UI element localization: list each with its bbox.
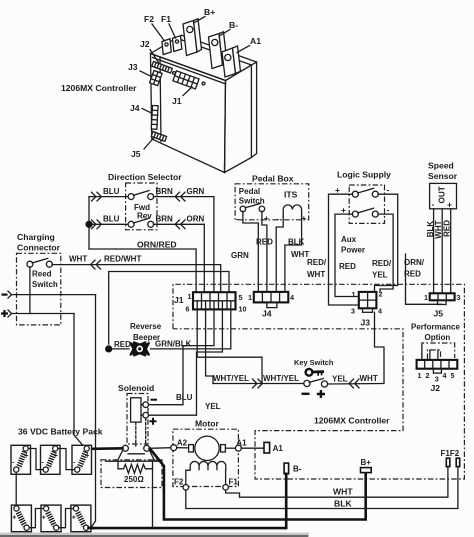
svg-text:1206MX Controller: 1206MX Controller [61, 83, 137, 93]
wire aux power outer right (RED/YEL) [375, 194, 398, 292]
heavy wire battery B3+ to solenoid contact [86, 447, 123, 450]
svg-text:Logic Supply: Logic Supply [337, 170, 391, 180]
terminal tab B+ on controller top [183, 19, 202, 56]
wire charging minus down to battery B6 [91, 295, 96, 528]
svg-text:A1: A1 [250, 36, 261, 46]
wire BLU from J1 pin8 to solenoid coil minus [148, 301, 214, 405]
wire YEL from J1 pin9 to solenoid coil plus [148, 301, 222, 415]
svg-text:-: - [387, 205, 390, 215]
label J5 with leader [131, 138, 154, 160]
inline connector arrows rev-right [175, 220, 185, 229]
svg-text:B-: B- [229, 20, 238, 30]
wire BRN rev row [153, 223, 204, 225]
svg-text:WHT/YEL: WHT/YEL [263, 374, 299, 383]
reed switch [27, 258, 58, 289]
svg-text:Switch: Switch [32, 280, 58, 289]
motor field coil [186, 461, 226, 484]
wire B2+ to B3- [58, 449, 75, 470]
connector J3 [351, 290, 383, 328]
svg-text:Charging: Charging [17, 232, 55, 242]
terminal tab B+ [361, 468, 372, 473]
svg-text:1: 1 [352, 290, 356, 299]
battery B3 [72, 445, 92, 474]
svg-text:4: 4 [443, 371, 447, 380]
logic supply switch dashed box [349, 185, 384, 223]
wire B1- down to B4+ [15, 472, 17, 505]
svg-text:-: - [236, 215, 239, 224]
controller 3D drawing: 1206MX Controller unit [151, 35, 257, 172]
speed sensor box [430, 183, 457, 209]
label Pedal Switch [239, 187, 265, 206]
label J2 with leader [140, 39, 159, 63]
wire RED to beeper [109, 348, 129, 350]
svg-text:B-: B- [293, 465, 302, 474]
charging connector labels [17, 232, 61, 253]
terminal tab B- [284, 463, 289, 474]
label Aux Power [341, 235, 365, 255]
svg-text:RED/: RED/ [372, 259, 392, 268]
svg-text:1: 1 [424, 293, 428, 302]
label J1 with leader [172, 87, 192, 106]
svg-text:BRN: BRN [156, 215, 174, 224]
wire RED beeper feed from J1 pin5 [109, 272, 229, 345]
scan edge dark line [0, 535, 308, 537]
svg-text:Reed: Reed [32, 270, 52, 279]
wire ORN/RED to J1 pin1 [89, 249, 196, 301]
controller back panel sliver [177, 35, 257, 157]
connector J2 pin strip on controller face [152, 62, 173, 74]
wire GRN/BLK from beeper to J1 pin10 [151, 301, 231, 349]
wire WHT/YEL from J1 pin7 to key switch left [206, 301, 213, 384]
heavy wire solenoid contact to B+ tab [150, 448, 366, 519]
svg-text:GRN: GRN [231, 251, 249, 260]
pedal box polarity marks [236, 214, 307, 224]
svg-text:GRN/BLK: GRN/BLK [155, 340, 192, 349]
svg-text:A2: A2 [177, 439, 188, 448]
svg-text:A1: A1 [273, 444, 284, 453]
label B+ with leader [195, 7, 216, 23]
wire WHT/YEL from J1 pin6 to key switch right [197, 301, 262, 384]
wire F1 to WHT line [226, 467, 448, 498]
svg-text:OUT: OUT [438, 186, 447, 203]
terminal tab B- on controller top [209, 32, 228, 69]
svg-text:J2: J2 [140, 39, 150, 49]
wire RED pedal to J4 pin2 [262, 211, 267, 292]
charging connector dashed box [17, 253, 61, 325]
battery B4 [11, 505, 31, 532]
svg-text:Option: Option [425, 333, 451, 342]
wire reed switch to plus line [29, 267, 31, 314]
wire ORN to J1 pin2 [203, 224, 205, 300]
svg-text:ORN/: ORN/ [404, 258, 425, 267]
svg-text:YEL: YEL [205, 402, 221, 411]
motor F1 terminal [223, 485, 229, 491]
svg-text:1: 1 [418, 371, 422, 380]
inline connector arrows key right [349, 379, 359, 388]
wire BLU forward row [89, 196, 129, 198]
label ORN/RED (right) [404, 258, 425, 279]
junction dot beeper [105, 345, 112, 352]
wire B4- to B5+ [29, 509, 43, 528]
wire key switch row right [328, 312, 384, 384]
controller front face crease [160, 57, 161, 142]
svg-text:+: + [264, 214, 269, 223]
wire WHT / RED-WHT to J1 pin4 [52, 265, 221, 301]
svg-text:YEL: YEL [332, 375, 348, 384]
svg-text:1: 1 [248, 293, 252, 302]
svg-text:BLK: BLK [288, 238, 305, 247]
wire A2 to armature [177, 447, 189, 449]
wire B5- to B6+ [59, 509, 74, 528]
svg-text:F1F2: F1F2 [441, 449, 460, 458]
motor F2 terminal [183, 485, 189, 491]
wire charging plus down to solenoid feed [74, 314, 86, 449]
inline connector arrows fwd-right [175, 192, 185, 201]
svg-text:ORN: ORN [187, 215, 205, 224]
controller top face lip line [153, 58, 225, 84]
direction selector dashed box [126, 183, 157, 230]
inline connector arrows rev-left [92, 220, 102, 229]
connector J4 [248, 292, 294, 319]
resistor dashed box [101, 460, 162, 488]
svg-text:Direction Selector: Direction Selector [108, 172, 182, 182]
svg-text:Connector: Connector [17, 243, 61, 253]
resistor 250 ohm zigzag [118, 464, 153, 473]
scan artifact gray strip [0, 533, 309, 537]
controller front face [151, 54, 226, 173]
solenoid dashed box [127, 394, 148, 445]
svg-text:4: 4 [290, 293, 294, 302]
label Reverse Beeper [130, 322, 162, 342]
wire GRN pedal to J4 pin1 [243, 211, 258, 292]
reverse beeper symbol [131, 342, 149, 355]
svg-text:+: + [447, 200, 452, 210]
connector J2 [417, 360, 458, 393]
svg-text:BLU: BLU [176, 393, 193, 402]
wire solenoid right contact to A2 [150, 447, 171, 450]
svg-text:Switch: Switch [239, 197, 265, 206]
label J4 with leader [130, 103, 153, 114]
battery B2 [41, 445, 61, 474]
svg-text:J4: J4 [130, 103, 140, 113]
wire A1 junction to A1 tab [241, 447, 264, 449]
svg-text:250Ω: 250Ω [124, 475, 144, 484]
terminal tab F2 on controller top [162, 39, 171, 55]
wire BLU reverse row [89, 223, 129, 225]
motor dashed box [173, 429, 239, 486]
solenoid coil [131, 398, 141, 422]
svg-text:Key Switch: Key Switch [294, 358, 334, 367]
charging plus lead with arrow [1, 310, 74, 317]
svg-text:ORN/RED: ORN/RED [137, 240, 177, 250]
svg-text:BLK: BLK [334, 499, 352, 509]
wire armature to A1 junction [225, 447, 235, 449]
key switch contacts [302, 379, 328, 398]
battery B5 [41, 505, 61, 532]
svg-text:Speed: Speed [428, 161, 454, 171]
logic switch row 1 [335, 185, 390, 198]
wire key switch row left [213, 383, 304, 385]
switch Fwd [128, 191, 154, 212]
wire GRN to J1 pin3 [213, 197, 215, 301]
charging minus lead with arrow [2, 291, 96, 298]
svg-text:J3: J3 [128, 62, 138, 72]
terminal tab F1 (controller right) [446, 458, 450, 466]
svg-text:WHT: WHT [307, 270, 325, 279]
svg-text:RED/: RED/ [307, 258, 327, 267]
wire speed sensor RED to J5 [450, 209, 452, 293]
pedal box dashed box [235, 184, 309, 220]
svg-text:WHT: WHT [333, 487, 353, 497]
solenoid mechanical link dashes [136, 418, 146, 446]
battery B6 [71, 505, 91, 532]
svg-text:B+: B+ [361, 458, 372, 467]
wire WHT ITS to J4 pin4 [285, 216, 302, 292]
svg-text:RED: RED [442, 220, 451, 237]
svg-text:-: - [387, 185, 390, 195]
switch Rev [128, 212, 154, 228]
svg-text:3: 3 [351, 307, 355, 316]
label Speed Sensor [428, 161, 458, 182]
svg-text:J5: J5 [131, 149, 141, 159]
wire aux inner right [378, 214, 393, 292]
solenoid contacts [122, 445, 149, 454]
svg-text:Pedal: Pedal [239, 187, 260, 196]
performance jumper cap [428, 350, 441, 359]
svg-text:1: 1 [188, 292, 192, 301]
svg-text:F1: F1 [161, 14, 171, 24]
label A1 with leader [237, 36, 261, 53]
svg-text:RED: RED [256, 238, 273, 247]
resistor leads [118, 461, 153, 469]
svg-text:Solenoid: Solenoid [118, 383, 154, 393]
svg-text:Aux: Aux [341, 235, 357, 244]
label Performance Option [411, 323, 460, 343]
controller right face [225, 65, 252, 173]
connector J5 pin strip on controller face [151, 132, 166, 142]
svg-text:10: 10 [239, 305, 247, 314]
connector J2 pins [422, 345, 438, 360]
svg-text:3: 3 [457, 293, 461, 302]
junction dot direction selector [85, 221, 92, 228]
svg-text:YEL: YEL [372, 271, 388, 280]
controller top face [151, 38, 252, 81]
solenoid contact bracket [106, 450, 162, 462]
svg-text:Motor: Motor [195, 419, 220, 429]
svg-text:2: 2 [379, 290, 383, 299]
label RED/WHT at aux box [307, 258, 327, 279]
svg-text:RED/WHT: RED/WHT [104, 255, 141, 264]
wire speed sensor BLK to J5 [433, 209, 435, 293]
1206MX controller dash-dot boundary [173, 284, 464, 479]
svg-text:RED: RED [339, 262, 356, 271]
wire B6- to B- cable [89, 526, 94, 529]
logic switch row 2 [341, 205, 390, 218]
svg-text:+: + [335, 185, 340, 195]
svg-text:WHT: WHT [69, 255, 87, 264]
wire resistor right to B- cable [152, 469, 154, 528]
svg-text:2: 2 [426, 371, 430, 380]
connector J1 [174, 292, 247, 314]
svg-text:-: - [277, 215, 280, 224]
inline connector arrows reed row [91, 260, 101, 269]
wire BRN fwd row [153, 196, 214, 198]
inline connector arrows fwd-left [92, 192, 102, 201]
wire BLK ITS to J4 pin3 [276, 216, 283, 292]
svg-text:WHT/YEL: WHT/YEL [213, 374, 249, 383]
wire speed sensor WHT to J5 [441, 209, 443, 293]
wire left bus of direction selector [88, 197, 90, 249]
svg-text:J5: J5 [434, 309, 444, 319]
svg-text:36 VDC Battery Pack: 36 VDC Battery Pack [18, 427, 103, 437]
svg-text:J3: J3 [361, 318, 371, 328]
inline connector arrows key row [253, 379, 263, 388]
svg-text:5: 5 [451, 371, 455, 380]
motor A1 junction [235, 445, 241, 451]
svg-text:RED: RED [114, 340, 131, 349]
wire aux power outer loop (RED) [329, 194, 361, 308]
wire aux inner left [335, 214, 359, 296]
ITS inductive throttle sensor symbol [283, 205, 301, 216]
svg-text:BLU: BLU [103, 215, 120, 224]
motor A2 junction [171, 445, 177, 451]
terminal tab A1 on controller top [222, 46, 241, 77]
svg-text:RED: RED [404, 270, 421, 279]
battery B1 [11, 445, 31, 474]
terminal tab F1 on controller top [173, 36, 182, 52]
svg-text:Sensor: Sensor [428, 171, 458, 181]
svg-text:J4: J4 [262, 309, 272, 319]
svg-text:4: 4 [378, 307, 382, 316]
label F2 F1 with leaders [144, 14, 176, 41]
terminal tab F2 (controller right) [456, 458, 460, 466]
key symbol [306, 369, 324, 376]
svg-text:6: 6 [186, 305, 190, 314]
solenoid coil terminals [141, 400, 157, 425]
svg-text:F2: F2 [144, 14, 154, 24]
pedal switch contacts [240, 204, 265, 212]
svg-text:ITS: ITS [284, 190, 298, 200]
wire B1+ to B2- [28, 449, 43, 470]
wire ORN/RED to J5 bottom tab [406, 254, 442, 304]
performance option jumper dash box [422, 343, 455, 358]
wire B- stem to battery cable [91, 474, 286, 528]
svg-text:Power: Power [341, 246, 365, 255]
svg-text:5: 5 [239, 293, 243, 302]
label B- with leader [220, 20, 238, 36]
svg-text:Pedal Box: Pedal Box [252, 174, 294, 184]
connector J1 pin grid on controller face [173, 71, 205, 89]
svg-text:1206MX Controller: 1206MX Controller [314, 416, 390, 426]
svg-text:B+: B+ [204, 7, 215, 17]
svg-text:J1: J1 [174, 295, 184, 305]
svg-text:J2: J2 [431, 383, 441, 393]
svg-text:F1: F1 [229, 478, 239, 487]
svg-text:WHT: WHT [360, 374, 378, 383]
svg-text:J1: J1 [172, 96, 182, 106]
svg-text:F2: F2 [174, 478, 184, 487]
terminal tab A1 (controller) [264, 442, 270, 453]
connector J4 pin strip on controller face [151, 106, 158, 130]
connector J5 [424, 293, 461, 319]
svg-text:Reverse: Reverse [130, 322, 162, 331]
svg-text:-: - [432, 199, 435, 209]
label RED/YEL [372, 259, 392, 280]
motor armature [189, 436, 226, 460]
connector J3 pin grid on controller face [150, 71, 163, 86]
svg-text:GRN: GRN [187, 187, 205, 196]
svg-text:BLU: BLU [103, 187, 120, 196]
label J3 with leader [128, 62, 153, 77]
wire F2 to BLK line [186, 467, 458, 509]
svg-text:Performance: Performance [411, 323, 460, 332]
svg-text:BRN: BRN [156, 187, 174, 196]
